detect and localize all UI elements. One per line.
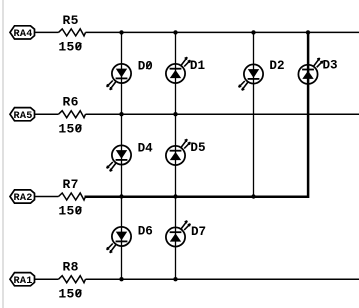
- sheet border line: [2, 0, 4, 308]
- wire column D1/D5/D7: [175, 32, 177, 279]
- LED D2: [239, 59, 285, 90]
- LED D7: [166, 221, 206, 247]
- junction node (253,196): [251, 194, 255, 198]
- svg-text:D7: D7: [191, 225, 206, 239]
- junction node (121,32): [119, 30, 123, 34]
- wire RA4 row: tag to R5: [35, 31, 59, 33]
- resistor R8: [59, 260, 86, 283]
- wire RA1 row: tag to R8: [35, 278, 59, 280]
- LED D1: [166, 57, 206, 83]
- terminal tag RA5: [10, 108, 35, 122]
- svg-text:150: 150: [58, 286, 82, 301]
- terminal tag RA4: [10, 26, 35, 40]
- LED D4: [107, 142, 153, 172]
- svg-text:D2: D2: [269, 59, 284, 73]
- resistor R5: [59, 13, 86, 36]
- LED D5: [166, 139, 206, 165]
- junction node (121,279): [119, 277, 123, 281]
- junction node (175,279): [173, 277, 177, 281]
- svg-text:D0: D0: [138, 60, 153, 74]
- wire RA5 row: R6 to right edge: [86, 113, 359, 115]
- LED D6: [107, 224, 153, 252]
- resistor R6: [59, 95, 86, 118]
- svg-text:D4: D4: [138, 142, 154, 156]
- svg-text:150: 150: [58, 40, 82, 55]
- junction node (121,114): [119, 112, 123, 116]
- svg-text:RA4: RA4: [13, 29, 32, 40]
- value 150 of R8: [58, 286, 82, 301]
- wire column D0/D4/D6: [121, 32, 123, 279]
- svg-text:R5: R5: [62, 13, 78, 28]
- resistor R7: [59, 177, 86, 200]
- terminal tag RA2: [10, 190, 35, 204]
- wire RA1 row: R8 to right edge: [86, 278, 359, 280]
- wire column D2: [253, 32, 255, 196]
- svg-text:150: 150: [58, 121, 82, 136]
- junction node (308,32): [306, 30, 310, 34]
- LED D0: [107, 60, 153, 90]
- svg-text:R7: R7: [62, 177, 78, 192]
- value 150 of R6: [58, 121, 82, 136]
- svg-text:R8: R8: [62, 260, 78, 275]
- wire RA2 row: tag to R7: [35, 196, 59, 198]
- value 150 of R5: [58, 40, 82, 55]
- wire RA4 row: R5 to right edge: [86, 31, 359, 33]
- svg-text:D1: D1: [190, 59, 206, 73]
- svg-text:RA5: RA5: [13, 111, 32, 122]
- svg-text:D6: D6: [138, 224, 153, 238]
- svg-text:R6: R6: [62, 95, 78, 110]
- svg-text:D3: D3: [323, 59, 338, 73]
- junction node (175,32): [173, 30, 177, 34]
- junction node (175,196): [173, 194, 177, 198]
- junction node (121,196): [119, 194, 123, 198]
- value 150 of R7: [58, 204, 82, 219]
- svg-text:RA2: RA2: [13, 193, 32, 204]
- terminal tag RA1: [10, 273, 35, 287]
- thick wire RA2 net: R7 right lead to D3 column elbow: [85, 32, 309, 196]
- svg-text:150: 150: [58, 204, 82, 219]
- LED D3: [298, 58, 337, 84]
- svg-text:D5: D5: [190, 141, 205, 155]
- junction node (253,32): [251, 30, 255, 34]
- wire RA5 row: tag to R6: [35, 113, 59, 115]
- svg-text:RA1: RA1: [13, 276, 32, 287]
- junction node (175,114): [173, 112, 177, 116]
